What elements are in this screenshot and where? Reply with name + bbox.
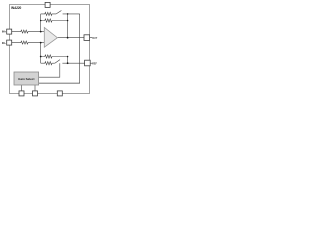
- svg-text:IN+: IN+: [2, 29, 7, 33]
- svg-text:OUT: OUT: [92, 37, 98, 40]
- svg-text:INA220: INA220: [11, 6, 21, 10]
- svg-text:REF: REF: [92, 63, 97, 66]
- svg-text:Gain Select: Gain Select: [18, 77, 34, 81]
- svg-text:IN−: IN−: [2, 41, 7, 45]
